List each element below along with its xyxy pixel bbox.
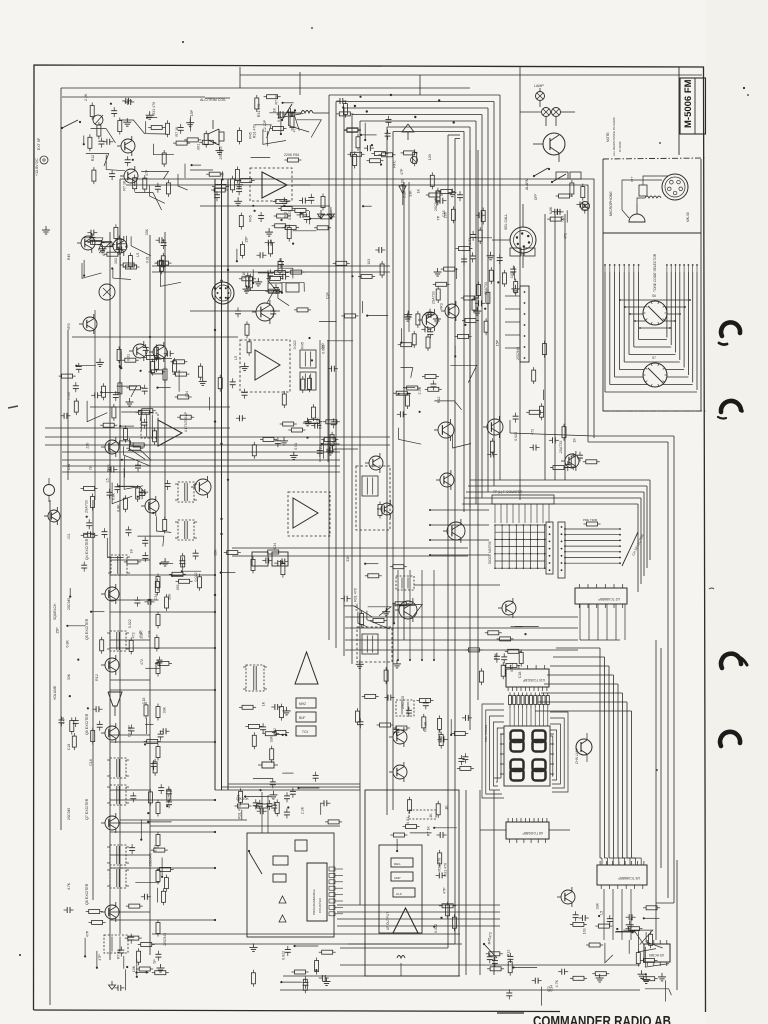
svg-text:TCX: TCX bbox=[302, 730, 309, 734]
svg-text:0.022: 0.022 bbox=[194, 573, 198, 582]
test point TP1 bbox=[411, 157, 418, 164]
ref osc parts bbox=[286, 707, 288, 711]
crystal filter boxes bbox=[252, 552, 268, 566]
bottom row parts mid bbox=[514, 967, 538, 969]
wire left inner x50 bbox=[49, 500, 51, 1005]
svg-text:2SC945: 2SC945 bbox=[434, 198, 438, 211]
tone nested bottom rungs bbox=[605, 391, 697, 393]
svg-text:TP: TP bbox=[130, 548, 134, 553]
svg-text:2SC945: 2SC945 bbox=[516, 347, 520, 360]
wire x95 upper bbox=[94, 310, 96, 500]
svg-text:6.8K: 6.8K bbox=[116, 504, 120, 512]
IC U7 programmable counter box bbox=[307, 863, 327, 921]
mic cable coil bbox=[645, 196, 661, 198]
svg-text:TP: TP bbox=[436, 215, 440, 220]
svg-text:R7 1K: R7 1K bbox=[275, 94, 279, 105]
svg-text:TP (L) F-COUNTER: TP (L) F-COUNTER bbox=[493, 490, 523, 494]
svg-text:M-5006 FM: M-5006 FM bbox=[683, 79, 694, 128]
svg-text:33K: 33K bbox=[346, 555, 350, 562]
transistor Q2 bbox=[113, 239, 127, 253]
mic line parts bbox=[252, 205, 254, 207]
svg-text:L5: L5 bbox=[234, 356, 238, 360]
svg-text:VR3: VR3 bbox=[67, 323, 71, 330]
vco dashed box bbox=[357, 627, 392, 662]
svg-text:AF OUTPUT: AF OUTPUT bbox=[386, 912, 390, 930]
stage1 parts bbox=[164, 558, 166, 562]
wire y445 bbox=[45, 444, 390, 446]
svg-text:47P: 47P bbox=[443, 887, 447, 894]
inductor L20 bbox=[301, 111, 313, 114]
wire left band y460 bbox=[62, 459, 340, 461]
svg-text:2SC945: 2SC945 bbox=[67, 808, 71, 820]
svg-text:EXT SP: EXT SP bbox=[37, 137, 41, 150]
transistor Q18 bbox=[565, 454, 579, 468]
resistor ladder right of selcall bbox=[514, 285, 516, 289]
transistor Q22 bbox=[105, 440, 119, 454]
svg-text:15P: 15P bbox=[190, 109, 194, 116]
mid-left transformers bbox=[178, 482, 194, 502]
box AUD bbox=[391, 872, 413, 881]
resistor R51 220K bbox=[288, 158, 299, 162]
switch S1a bbox=[62, 120, 78, 128]
svg-text:2SC945: 2SC945 bbox=[163, 933, 167, 946]
panel divider x679 bbox=[678, 67, 680, 155]
tx chain parts bbox=[289, 108, 291, 112]
svg-text:TONE CODE SELECTOR: TONE CODE SELECTOR bbox=[653, 253, 657, 292]
svg-text:C34: C34 bbox=[326, 292, 330, 299]
sel-call wires bbox=[522, 204, 524, 227]
ground g1 bbox=[45, 226, 47, 230]
scan speck bottom bbox=[656, 769, 658, 771]
dashed box X2 bbox=[409, 810, 436, 819]
filter dashed box L4 bbox=[356, 466, 390, 530]
svg-text:.001: .001 bbox=[283, 212, 287, 219]
svg-text:0.022: 0.022 bbox=[288, 211, 292, 220]
diode matrix grid bbox=[494, 525, 496, 568]
junction dots on buses bbox=[214, 420, 216, 422]
diode D1 bbox=[279, 896, 286, 903]
wire band right legs down bbox=[649, 480, 651, 560]
svg-text:R7 1K: R7 1K bbox=[426, 826, 430, 837]
transistor Q3 bbox=[133, 344, 147, 358]
vertical rail x470 bbox=[469, 150, 471, 730]
box NJM bbox=[391, 858, 413, 867]
ground g2 bbox=[320, 210, 322, 214]
transistor Q25 bbox=[381, 503, 393, 515]
row2 parts bbox=[119, 366, 121, 368]
IC U2 TC4558BP bbox=[575, 588, 627, 604]
svg-text:0.047: 0.047 bbox=[67, 391, 71, 400]
svg-text:2SC945: 2SC945 bbox=[401, 696, 405, 709]
box CLK bbox=[393, 888, 415, 897]
stage bus links bbox=[110, 574, 215, 576]
svg-text:103: 103 bbox=[114, 258, 118, 264]
vco coil bbox=[362, 634, 378, 654]
connector strip A bbox=[546, 522, 553, 574]
chain resistor col bbox=[156, 577, 160, 588]
transistor Q7 bbox=[145, 499, 159, 513]
wire mid band y548 bbox=[232, 547, 468, 549]
svg-text:SEL CALL: SEL CALL bbox=[504, 214, 508, 230]
wire nested bus N1 bbox=[329, 94, 500, 96]
svg-text:R31 470: R31 470 bbox=[444, 863, 448, 877]
mic connector J5 bbox=[662, 174, 688, 200]
transistor Q41 bbox=[440, 473, 454, 487]
transistor Q40 bbox=[438, 422, 454, 438]
svg-text:2SA733: 2SA733 bbox=[559, 441, 563, 454]
ground g3 bbox=[330, 210, 332, 214]
svg-text:REG: REG bbox=[394, 862, 401, 866]
af power triangle U6 bbox=[393, 908, 418, 933]
stage4 transistor Q11 bbox=[105, 816, 119, 830]
7seg digit DS3 bbox=[511, 760, 524, 772]
svg-text:Q7 EXCITER: Q7 EXCITER bbox=[85, 798, 89, 820]
svg-text:0.01: 0.01 bbox=[406, 817, 410, 824]
microphone box bbox=[602, 159, 604, 233]
border circle TP3 bbox=[44, 485, 55, 496]
display nested loops right bbox=[550, 712, 568, 792]
svg-text:0.022: 0.022 bbox=[322, 345, 326, 354]
resistor R88 bbox=[295, 970, 306, 974]
svg-text:R12: R12 bbox=[95, 674, 99, 681]
svg-text:103: 103 bbox=[367, 259, 371, 265]
svg-text:R12: R12 bbox=[437, 397, 441, 404]
box F1 bbox=[295, 840, 307, 851]
wire band y266 bbox=[152, 265, 390, 267]
lamp LP2 bbox=[542, 108, 551, 117]
q18 parts bbox=[577, 454, 583, 456]
wire y585 bbox=[414, 584, 500, 586]
svg-text:47P: 47P bbox=[85, 930, 89, 937]
svg-text:220: 220 bbox=[86, 443, 90, 449]
svg-text:R45: R45 bbox=[249, 215, 253, 222]
ref parts lower bbox=[284, 795, 290, 797]
wire y311 bbox=[190, 310, 280, 312]
af block outer box bbox=[365, 790, 459, 976]
svg-text:VOLUME: VOLUME bbox=[53, 685, 57, 700]
svg-text:Q5 EXCITER: Q5 EXCITER bbox=[85, 618, 89, 640]
wire pll vertical bus x600-640 bbox=[599, 648, 601, 858]
mic element bbox=[629, 214, 645, 222]
output coil L9 bbox=[104, 935, 128, 953]
wire main loop x120 bbox=[120, 179, 594, 438]
svg-text:MICROPHONE: MICROPHONE bbox=[609, 191, 613, 216]
transistor Q4 bbox=[153, 345, 167, 359]
svg-text:R31 470: R31 470 bbox=[238, 805, 242, 819]
tx driver column parts bbox=[370, 159, 381, 163]
svg-text:ALL RESISTANCE IN OHMS: ALL RESISTANCE IN OHMS bbox=[612, 117, 616, 156]
svg-text:R45: R45 bbox=[249, 132, 253, 139]
svg-text:L5: L5 bbox=[105, 478, 109, 482]
svg-text:472: 472 bbox=[488, 932, 492, 938]
mixer parts mid bbox=[343, 596, 345, 602]
mid extra parts D bbox=[62, 374, 73, 378]
mid extra parts A bbox=[244, 363, 246, 367]
mic input line bbox=[190, 169, 213, 171]
pll vertical drops bbox=[397, 570, 399, 660]
svg-text:U5 TC4568BP: U5 TC4568BP bbox=[617, 876, 640, 880]
wire left col rails bbox=[109, 232, 111, 960]
svg-text:472: 472 bbox=[132, 632, 136, 638]
tone rotary SW2 bbox=[643, 363, 667, 387]
small box K1 bbox=[273, 856, 288, 865]
svg-text:2.2K: 2.2K bbox=[139, 630, 143, 638]
svg-text:R31 470: R31 470 bbox=[354, 588, 358, 602]
svg-text:PRE TRIM: PRE TRIM bbox=[583, 518, 598, 522]
svg-text:TP: TP bbox=[89, 465, 93, 470]
7seg digit DS4 bbox=[533, 760, 546, 772]
svg-text:2.2K: 2.2K bbox=[84, 93, 88, 101]
rf front end row1 bbox=[119, 257, 121, 278]
svg-text:Q6 EXCITER: Q6 EXCITER bbox=[85, 713, 89, 735]
svg-text:2SA733: 2SA733 bbox=[85, 500, 89, 513]
wire N1 inner corners bbox=[448, 134, 460, 136]
lamp MR1 bbox=[581, 202, 590, 211]
stage2 transistor Q9 bbox=[105, 658, 119, 672]
bias boxes bbox=[268, 283, 282, 292]
svg-text:1K: 1K bbox=[262, 701, 266, 706]
gap parts F bbox=[252, 445, 256, 456]
svg-text:472: 472 bbox=[563, 233, 567, 239]
svg-text:R7 1K: R7 1K bbox=[123, 180, 127, 191]
svg-text:6.8K: 6.8K bbox=[106, 464, 110, 472]
svg-text:R12: R12 bbox=[91, 155, 95, 162]
svg-text:C18: C18 bbox=[142, 698, 146, 705]
wire bottom rails bbox=[152, 933, 460, 935]
svg-text:0.01: 0.01 bbox=[294, 443, 298, 450]
tone upper rungs bbox=[620, 299, 690, 301]
alarm parts bbox=[556, 209, 558, 215]
limiter triangle U12 bbox=[255, 350, 280, 380]
transistor Q43 bbox=[487, 419, 503, 435]
svg-text:0.01: 0.01 bbox=[145, 256, 149, 263]
slide switch S2 bbox=[520, 286, 529, 362]
ref divider boxes bbox=[296, 698, 316, 708]
svg-text:TP: TP bbox=[153, 959, 157, 964]
U3 feedback parts bbox=[330, 207, 332, 218]
right vert rails bbox=[465, 790, 467, 975]
svg-text:2SA733: 2SA733 bbox=[438, 730, 442, 743]
f-counter bracket bbox=[492, 495, 554, 504]
svg-text:10K: 10K bbox=[132, 965, 136, 972]
xtal X1 bbox=[262, 762, 274, 768]
det filter cluster bbox=[179, 560, 185, 562]
mid right cluster parts bbox=[268, 228, 270, 232]
wire right vbus x545-570 bbox=[544, 214, 546, 480]
svg-text:100: 100 bbox=[428, 154, 432, 160]
svg-text:220K R51: 220K R51 bbox=[284, 153, 300, 157]
left stage y465-545 bbox=[152, 512, 154, 514]
transistor Q42 bbox=[447, 522, 465, 540]
tone rotary SW1 bbox=[643, 301, 667, 325]
lamp LP3 bbox=[552, 108, 561, 117]
stage1 transformer T6 bbox=[111, 555, 127, 575]
scan mark left edge bbox=[8, 406, 18, 408]
svg-text:ALC/TRIM COIL: ALC/TRIM COIL bbox=[200, 98, 226, 102]
af inner box bbox=[379, 845, 422, 933]
stage4 parts bbox=[148, 792, 152, 803]
svg-text:472: 472 bbox=[140, 659, 144, 665]
bottom border stub bbox=[497, 1012, 524, 1014]
wire bus loop A left bbox=[61, 87, 470, 89]
ch selector lines bbox=[565, 528, 620, 530]
switch S5 bbox=[249, 852, 262, 874]
xtal filter dashed box bbox=[240, 340, 290, 392]
svg-text:15P: 15P bbox=[245, 236, 249, 243]
display resistor row bbox=[509, 696, 512, 705]
svg-text:CLK: CLK bbox=[396, 892, 402, 896]
svg-text:6.8K: 6.8K bbox=[65, 640, 69, 648]
left stub wires bbox=[110, 559, 150, 561]
svg-text:C34: C34 bbox=[549, 985, 553, 992]
svg-text:33K: 33K bbox=[595, 902, 599, 909]
alarm switch cluster bbox=[534, 168, 548, 176]
svg-text:2.2K: 2.2K bbox=[403, 190, 407, 198]
IC U9 HC365 bbox=[644, 944, 670, 962]
display outline bbox=[504, 726, 550, 786]
coil T1 shielded bbox=[99, 284, 115, 300]
display nested loops left bbox=[482, 704, 504, 798]
svg-text:MK-08: MK-08 bbox=[686, 212, 690, 222]
mic wiring bbox=[637, 198, 645, 204]
border transistor Q26 bbox=[48, 510, 60, 522]
wire x215 bus bottom turn bbox=[215, 789, 360, 791]
mic ptt box bbox=[639, 185, 647, 196]
counter top rails bbox=[120, 819, 247, 821]
pll mid parts bbox=[501, 665, 505, 676]
tone box bottom dashdot bbox=[604, 410, 706, 412]
7seg digit DS2 bbox=[533, 731, 546, 743]
stage5 transformer T9 bbox=[110, 845, 126, 865]
svg-text:33K: 33K bbox=[214, 549, 218, 556]
svg-text:C18: C18 bbox=[67, 744, 71, 750]
stage1 transistor Q8 bbox=[105, 587, 119, 601]
transistor Q24 bbox=[369, 456, 383, 470]
svg-text:2.2K: 2.2K bbox=[61, 716, 65, 724]
svg-text:2SC945: 2SC945 bbox=[67, 598, 71, 610]
coil T2 cone bbox=[402, 124, 414, 132]
svg-text:2.2K: 2.2K bbox=[300, 806, 304, 814]
volume pot VR1 bbox=[93, 115, 103, 125]
svg-text:C18: C18 bbox=[242, 272, 246, 279]
svg-text:R31 470: R31 470 bbox=[252, 125, 256, 139]
svg-text:R12: R12 bbox=[506, 950, 510, 957]
svg-text:33K: 33K bbox=[163, 706, 167, 713]
svg-text:C18: C18 bbox=[148, 631, 152, 638]
op-amp U3 dashed enclosure bbox=[250, 168, 292, 201]
op-amp U3 bbox=[262, 172, 287, 198]
svg-text:47P: 47P bbox=[400, 168, 404, 175]
af bottom coil bbox=[397, 956, 405, 959]
lamp wires bbox=[539, 88, 541, 92]
scan specks bbox=[182, 41, 184, 43]
svg-text:OFF: OFF bbox=[534, 194, 538, 200]
svg-text:0.01: 0.01 bbox=[237, 794, 241, 801]
pll horizontal links bbox=[345, 616, 578, 618]
sel-call connector J3 bbox=[510, 227, 536, 253]
wire mid horizontal band y480-505 bbox=[470, 479, 650, 481]
transistor Q1 bbox=[81, 236, 95, 250]
M-5006 FM label box bbox=[680, 78, 706, 134]
svg-text:R31 470: R31 470 bbox=[257, 104, 261, 118]
svg-text:15P: 15P bbox=[495, 339, 499, 346]
U7 pin squares bbox=[329, 867, 335, 871]
transistor Q31 bbox=[445, 304, 459, 318]
svg-text:33K: 33K bbox=[145, 228, 149, 235]
svg-text:15P: 15P bbox=[55, 627, 59, 634]
svg-text:L5: L5 bbox=[600, 911, 604, 915]
af top cluster bbox=[434, 827, 457, 829]
display side pins bbox=[500, 733, 504, 735]
stage2 transformer T7 bbox=[110, 631, 126, 651]
page border bottom bbox=[34, 1010, 561, 1012]
left low parts B bbox=[92, 920, 103, 924]
small box K2 bbox=[273, 874, 286, 882]
svg-text:0.022: 0.022 bbox=[293, 340, 297, 349]
svg-text:33K: 33K bbox=[167, 593, 171, 600]
transistor Q5 bbox=[256, 303, 274, 321]
bottom right switch bbox=[484, 944, 497, 958]
svg-text:1K: 1K bbox=[445, 805, 449, 810]
binder mark 2 bbox=[721, 401, 741, 412]
U5 bottom wires bbox=[603, 889, 605, 940]
transistor LED driver bbox=[576, 739, 592, 755]
tone comb right verticals bbox=[696, 272, 698, 390]
left parts col y385-460 bbox=[101, 391, 120, 393]
tone comb left verticals bbox=[604, 272, 606, 392]
diode D2 bbox=[279, 915, 286, 922]
svg-text:U8 TC4518BP: U8 TC4518BP bbox=[523, 831, 544, 835]
input jack J2 bbox=[40, 156, 48, 164]
svg-text:U9 HC365: U9 HC365 bbox=[649, 953, 664, 957]
svg-text:BUF: BUF bbox=[299, 716, 305, 720]
varicap funnel bbox=[108, 692, 122, 706]
svg-text:DIODE MATRIX: DIODE MATRIX bbox=[488, 540, 492, 564]
wire y452 bbox=[62, 451, 340, 453]
selcall boxes bbox=[510, 248, 521, 256]
svg-text:C2 22P: C2 22P bbox=[263, 119, 267, 132]
op-amp U4 bbox=[293, 498, 318, 528]
IC U5 TC4568BP bbox=[597, 865, 647, 885]
pll block outer box bbox=[247, 833, 334, 937]
ref trafo bbox=[246, 665, 264, 691]
matrix left wires bbox=[430, 509, 489, 511]
transistor Q15 bbox=[121, 139, 135, 153]
wire audio cluster top bbox=[62, 96, 205, 98]
transistor Q17 mixer bbox=[502, 601, 516, 615]
svg-text:K=1000: K=1000 bbox=[618, 141, 622, 152]
wire y407 bbox=[90, 406, 230, 408]
antenna ground bbox=[111, 981, 113, 985]
wire center vertical bus x215 bbox=[214, 179, 216, 790]
svg-text:1K: 1K bbox=[429, 813, 433, 818]
svg-text:SQUELCH: SQUELCH bbox=[53, 603, 57, 620]
svg-text:2SA733: 2SA733 bbox=[432, 291, 436, 304]
wire top inner line bbox=[240, 74, 702, 76]
switch S3 bbox=[282, 104, 292, 120]
wire bottom band y905 bbox=[337, 904, 500, 906]
svg-text:2SA733: 2SA733 bbox=[484, 282, 488, 295]
svg-text:.001: .001 bbox=[560, 216, 564, 223]
binder mark 3 bbox=[721, 654, 741, 668]
svg-text:R45: R45 bbox=[300, 342, 304, 349]
wire right col x677 bottom bbox=[676, 860, 678, 990]
svg-text:R45: R45 bbox=[67, 254, 71, 260]
svg-text:R31 470: R31 470 bbox=[152, 102, 156, 116]
mic line lower bbox=[200, 205, 330, 207]
transistor Q20 bbox=[561, 890, 575, 904]
wire y436 extension bbox=[510, 433, 594, 436]
